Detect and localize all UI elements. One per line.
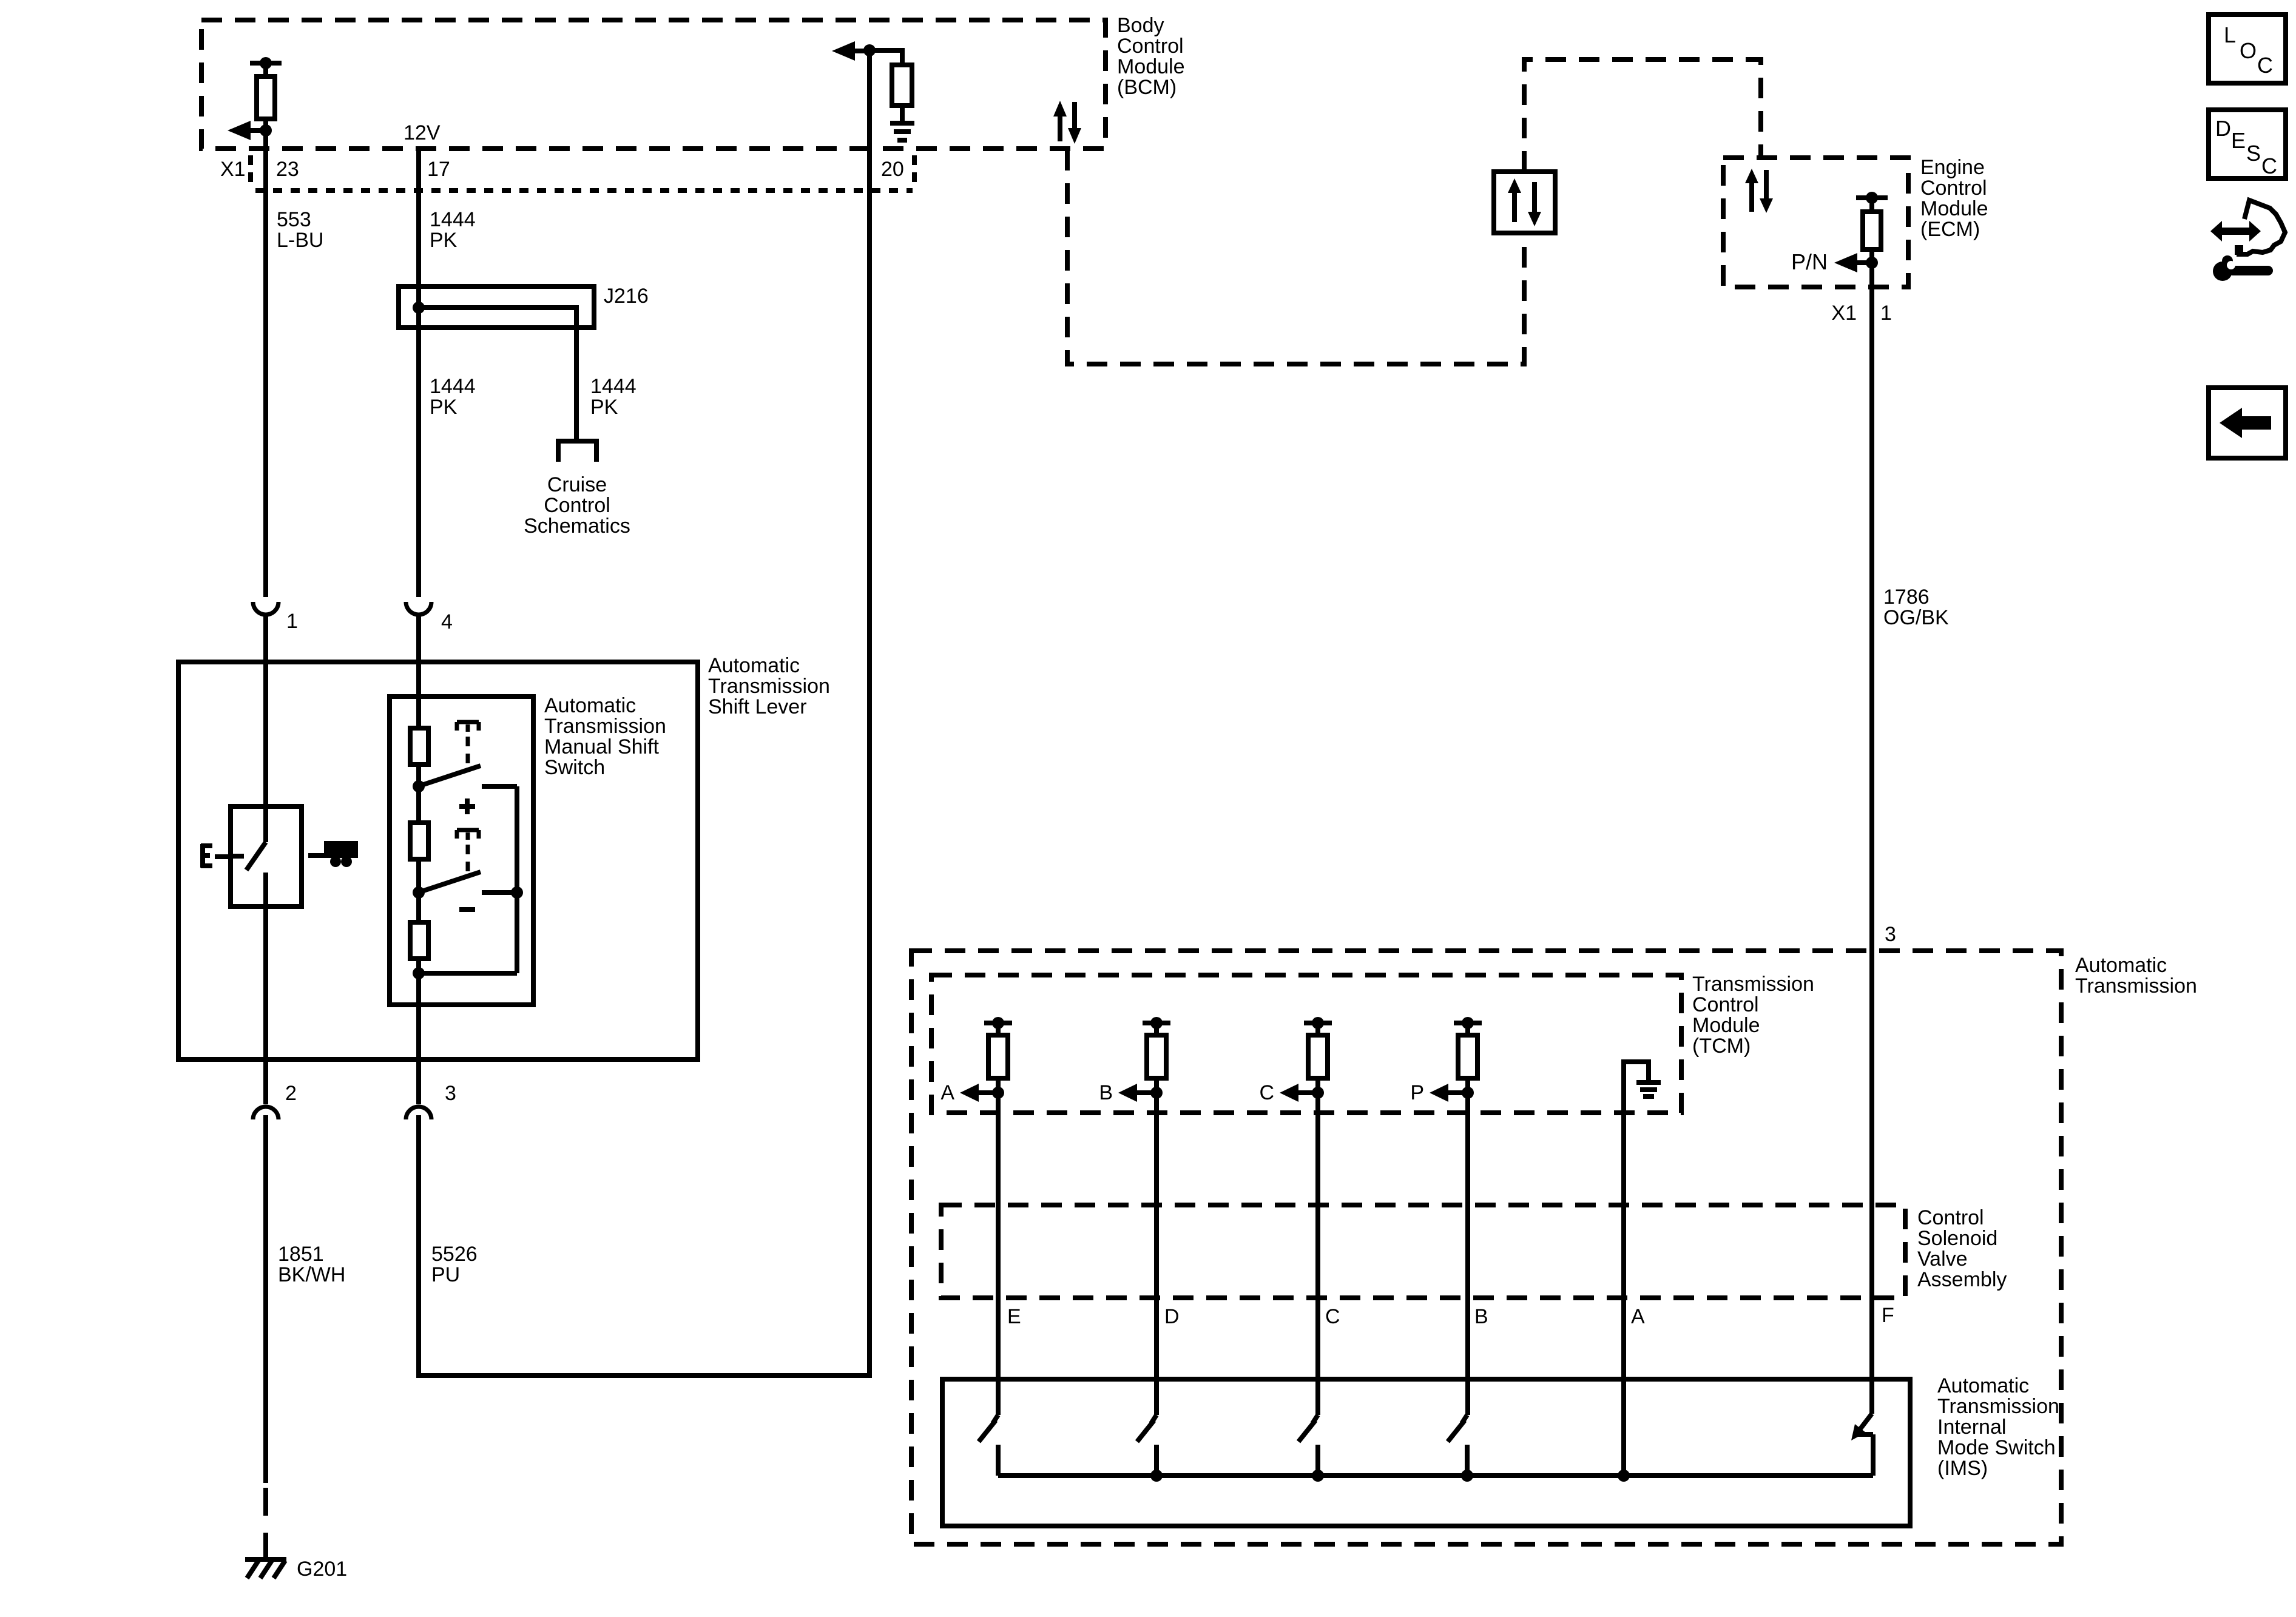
svg-text:PK: PK (430, 396, 458, 419)
wire MSS contact2 (482, 890, 517, 895)
switch MSS minus blade (424, 872, 481, 891)
node IMS rail junction D (1150, 1470, 1163, 1482)
svg-text:Valve: Valve (1917, 1247, 1968, 1271)
wire MSS R1 to node1 (416, 765, 421, 823)
label manual shift switch name (544, 694, 666, 779)
linkage MSS plus actuator dashed (457, 722, 479, 768)
resistor TCM A driver (984, 1017, 1012, 1093)
node IMS rail junction A (1618, 1470, 1630, 1482)
svg-text:20: 20 (881, 158, 904, 181)
label TCM name (1692, 973, 1814, 1058)
svg-text:Automatic: Automatic (1937, 1374, 2029, 1397)
wire 1851 BK/WH down to ground (263, 1130, 268, 1483)
label wire 1786 OG/BK (1883, 586, 1949, 629)
wire 1851 dashed tail (263, 1488, 268, 1557)
node MSS node3 (413, 967, 425, 979)
wire MSS R2 to node2 (416, 859, 421, 922)
arrow TCM A signal (points left) (960, 1084, 1004, 1102)
label wire 1444 PK branch (590, 375, 636, 419)
connector X1 left tick (248, 155, 253, 186)
node MSS node1 (413, 780, 425, 792)
label Cruise Control Schematics (524, 473, 630, 538)
svg-text:BK/WH: BK/WH (278, 1263, 345, 1286)
svg-text:Transmission: Transmission (1937, 1395, 2059, 1418)
svg-text:(BCM): (BCM) (1117, 76, 1177, 99)
module ECM dashed box (1723, 158, 1908, 287)
label IMS name (1937, 1374, 2059, 1480)
arrow ECM P/N signal (points left) (1834, 253, 1878, 272)
wire serial data dashed bus gateway to ECM (1524, 59, 1761, 172)
arrow BCM pin20 signal (points left) (832, 41, 876, 61)
label wire 1444 PK upper (430, 208, 476, 252)
wire 1444 PK from BCM pin17 down (416, 149, 421, 597)
resistor TCM C driver (1304, 1017, 1332, 1093)
resistor MSS R2 (410, 823, 428, 859)
svg-text:Transmission: Transmission (544, 715, 666, 738)
label wire 553 L-BU (277, 208, 323, 252)
svg-text:X1: X1 (220, 158, 246, 181)
svg-text:4: 4 (441, 610, 453, 633)
wire TCM A down to IMS (996, 1093, 1001, 1415)
svg-text:Automatic: Automatic (2075, 954, 2167, 977)
module BCM dashed box (201, 20, 1106, 149)
svg-text:17: 17 (427, 158, 450, 181)
svg-text:F: F (1882, 1304, 1894, 1327)
switch IMS contact B (1448, 1415, 1467, 1476)
label Automatic Transmission name (2075, 954, 2197, 998)
arrow TCM B signal (points left) (1118, 1084, 1163, 1102)
box IMS solid (942, 1379, 1910, 1526)
svg-text:A: A (940, 1081, 954, 1104)
svg-text:OG/BK: OG/BK (1883, 606, 1949, 629)
arrow BCM pin23 signal (points left) (228, 121, 272, 140)
svg-text:PK: PK (430, 229, 458, 252)
wire tow/haul lower stub (263, 873, 268, 1104)
svg-text:1: 1 (1880, 302, 1892, 325)
svg-text:O: O (2240, 38, 2257, 63)
module TCM dashed box (931, 975, 1681, 1113)
wire serial data dashed bus BCM to gateway (1067, 150, 1524, 364)
wire 553 below connector 1 (263, 615, 268, 842)
svg-text:C: C (2257, 53, 2273, 78)
node off-page bracket to cruise control (558, 441, 596, 462)
label minus sign (459, 907, 475, 912)
svg-text:PK: PK (590, 396, 618, 419)
label CSV assembly name (1917, 1206, 2007, 1291)
ground BCM internal ground symbol (890, 123, 914, 140)
svg-text:553: 553 (277, 208, 311, 231)
wire 553 L-BU from BCM pin23 down (263, 130, 268, 597)
svg-text:23: 23 (276, 158, 299, 181)
svg-text:Transmission: Transmission (708, 675, 830, 698)
svg-text:12V: 12V (403, 121, 441, 144)
node IMS rail junction C (1312, 1470, 1324, 1482)
switch IMS contact E (979, 1415, 998, 1476)
svg-text:1444: 1444 (430, 375, 476, 398)
resistor BCM pin20 pull-down (869, 50, 912, 123)
svg-text:Switch: Switch (544, 756, 605, 779)
label ECM name (1920, 156, 1988, 241)
svg-text:Module: Module (1117, 55, 1185, 78)
label shift lever name (708, 654, 830, 718)
wire MSS right rail (515, 786, 519, 973)
arrow TCM P signal (points left) (1430, 1084, 1474, 1102)
wire MSS rail bottom return (419, 971, 517, 976)
svg-text:L: L (2224, 22, 2236, 47)
svg-text:1444: 1444 (430, 208, 476, 231)
svg-text:(TCM): (TCM) (1692, 1035, 1751, 1058)
wire 1786 OG/BK from ECM down (1869, 263, 1874, 1414)
svg-text:5526: 5526 (431, 1243, 478, 1266)
connector 4 half-circle (406, 602, 431, 615)
icon ECM serial-data arrows (1745, 169, 1773, 213)
svg-text:D: D (1164, 1305, 1180, 1328)
wire TCM P down to IMS (1465, 1093, 1470, 1415)
svg-text:Control: Control (1117, 35, 1184, 58)
svg-text:P: P (1410, 1081, 1424, 1104)
wire MSS R3 to node3 (416, 959, 421, 1104)
connector 2 half-circle (253, 1107, 279, 1119)
ground G201 symbol (245, 1559, 286, 1578)
icon LOC box (2209, 15, 2286, 83)
resistor TCM P driver (1454, 1017, 1482, 1093)
splice J216 (399, 286, 594, 441)
node MSS rail junction (511, 886, 523, 899)
resistor TCM B driver (1143, 1017, 1170, 1093)
label node E (201, 844, 212, 868)
box Automatic Transmission Manual Shift Switch (390, 697, 533, 1005)
svg-text:1851: 1851 (278, 1243, 324, 1266)
resistor ECM P/N pull-up (1856, 192, 1888, 263)
svg-text:Control: Control (1920, 177, 1987, 200)
svg-text:C: C (2261, 154, 2277, 178)
ground TCM internal ground (1624, 1062, 1661, 1476)
svg-text:PU: PU (431, 1263, 460, 1286)
switch IMS wiper F with arrow (1851, 1414, 1873, 1476)
svg-text:Shift Lever: Shift Lever (708, 695, 807, 718)
svg-text:B: B (1474, 1305, 1488, 1328)
svg-text:Automatic: Automatic (708, 654, 800, 677)
svg-text:D: D (2215, 116, 2231, 141)
svg-text:Body: Body (1117, 14, 1164, 37)
switch tow/haul blade (246, 842, 266, 870)
label wire 5526 PU (431, 1243, 478, 1286)
wire TCM C down to IMS (1315, 1093, 1320, 1415)
icon trailer (308, 841, 358, 867)
svg-text:Automatic: Automatic (544, 694, 636, 717)
svg-text:Control: Control (1692, 993, 1759, 1016)
wire E contact stub (233, 854, 244, 859)
svg-text:(IMS): (IMS) (1937, 1457, 1988, 1480)
svg-text:Control: Control (1917, 1206, 1984, 1229)
wire IMS common rail (998, 1473, 1873, 1478)
node IMS rail junction B (1461, 1470, 1473, 1482)
module Automatic Transmission dashed box (911, 951, 2061, 1544)
wire 1444 below connector 4 (416, 615, 421, 728)
switch MSS plus blade (424, 766, 481, 785)
wire connector 3 stub (416, 1115, 421, 1130)
wire TCM B down to IMS (1154, 1093, 1159, 1415)
svg-text:L-BU: L-BU (277, 229, 323, 252)
svg-text:Cruise: Cruise (547, 473, 607, 496)
svg-text:1786: 1786 (1883, 586, 1930, 609)
label wire 1444 PK lower-left (430, 375, 476, 419)
svg-text:G201: G201 (297, 1558, 347, 1581)
resistor MSS R3 (410, 922, 428, 959)
icon DESC box (2209, 110, 2286, 178)
box Control Solenoid Valve Assembly dashed (941, 1205, 1905, 1298)
svg-text:Module: Module (1692, 1014, 1760, 1037)
svg-text:E: E (1007, 1305, 1021, 1328)
svg-text:C: C (1259, 1081, 1274, 1104)
resistor BCM pin23 pull-up (250, 57, 282, 130)
wire 5526 PU route down right and up to BCM pin20 (419, 50, 869, 1376)
resistor MSS R1 (410, 728, 428, 765)
svg-text:Transmission: Transmission (2075, 974, 2197, 998)
arrow TCM C signal (points left) (1280, 1084, 1324, 1102)
box Automatic Transmission Shift Lever (178, 662, 698, 1059)
svg-text:C: C (1325, 1305, 1340, 1328)
svg-text:2: 2 (285, 1082, 297, 1105)
svg-text:Transmission: Transmission (1692, 973, 1814, 996)
svg-text:P/N: P/N (1791, 249, 1828, 274)
svg-text:Schematics: Schematics (524, 515, 630, 538)
svg-text:A: A (1631, 1305, 1645, 1328)
label plus sign (459, 798, 475, 814)
label BCM name (1117, 14, 1185, 99)
linkage MSS minus actuator dashed (457, 830, 479, 874)
svg-text:B: B (1099, 1081, 1113, 1104)
svg-text:Assembly: Assembly (1917, 1268, 2007, 1291)
svg-text:(ECM): (ECM) (1920, 218, 1980, 241)
connector X1 right tick (912, 155, 917, 186)
svg-text:Module: Module (1920, 197, 1988, 220)
wire E dash (215, 854, 228, 859)
icon diagnostic hand with wrench (2210, 200, 2285, 281)
wire connector 2 stub (263, 1115, 268, 1130)
svg-text:E: E (2231, 128, 2246, 153)
switch IMS contact D (1137, 1415, 1156, 1476)
wire MSS contact1 (482, 784, 517, 789)
svg-text:1: 1 (286, 610, 298, 633)
icon back-arrow box (2209, 388, 2286, 458)
svg-text:Mode Switch: Mode Switch (1937, 1436, 2056, 1459)
icon BCM serial-data arrows (1053, 101, 1081, 144)
svg-text:Solenoid: Solenoid (1917, 1227, 1997, 1250)
svg-text:3: 3 (445, 1082, 456, 1105)
svg-text:X1: X1 (1831, 302, 1857, 325)
svg-text:3: 3 (1885, 923, 1896, 946)
node MSS node2 (413, 886, 425, 899)
svg-text:Manual Shift: Manual Shift (544, 735, 660, 758)
connector 1 half-circle (253, 602, 279, 615)
svg-text:S: S (2246, 141, 2261, 166)
icon gateway serial-data box (1494, 172, 1555, 233)
connector X1 dotted bar (255, 188, 913, 193)
svg-text:Control: Control (544, 494, 610, 517)
svg-text:1444: 1444 (590, 375, 636, 398)
label wire 1851 BK/WH (278, 1243, 345, 1286)
box tow/haul switch (231, 806, 302, 906)
switch IMS contact C (1298, 1415, 1318, 1476)
svg-text:Engine: Engine (1920, 156, 1985, 179)
connector 3 half-circle (406, 1107, 431, 1119)
svg-text:Internal: Internal (1937, 1416, 2006, 1439)
svg-text:J216: J216 (604, 285, 649, 308)
